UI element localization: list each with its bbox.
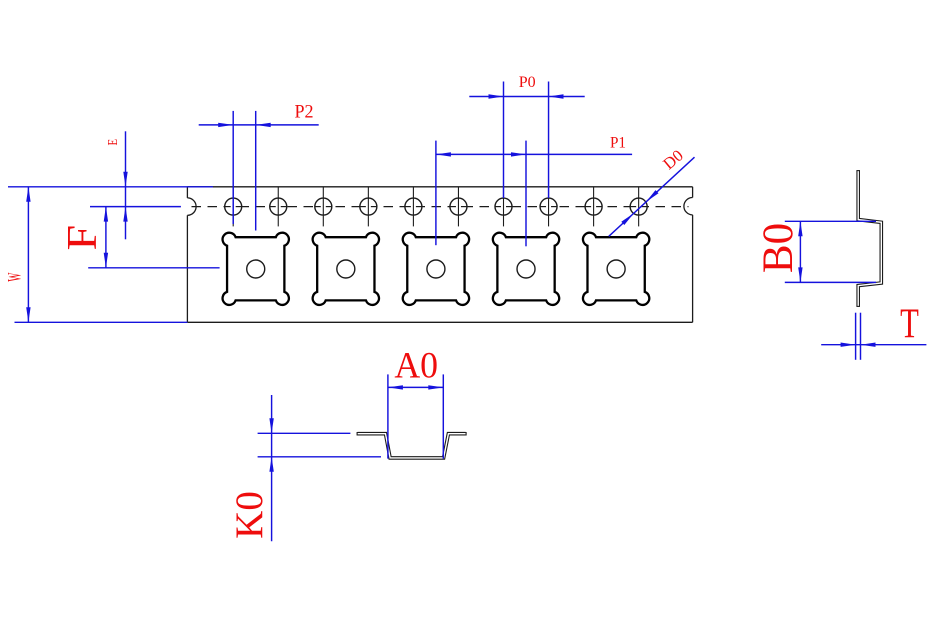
svg-text:E: E (105, 139, 121, 145)
svg-text:K0: K0 (228, 491, 271, 539)
svg-text:F: F (59, 225, 106, 251)
svg-text:P0: P0 (519, 74, 536, 91)
svg-text:B0: B0 (755, 223, 802, 273)
svg-text:A0: A0 (394, 345, 438, 385)
svg-text:P1: P1 (610, 134, 626, 151)
svg-text:W: W (5, 272, 25, 281)
svg-text:T: T (900, 300, 919, 347)
svg-text:P2: P2 (294, 101, 313, 123)
